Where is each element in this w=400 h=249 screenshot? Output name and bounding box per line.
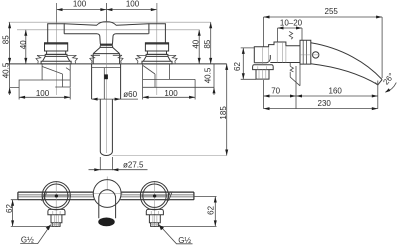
svg-text:G½: G½: [178, 236, 191, 245]
svg-text:62: 62: [206, 205, 215, 214]
svg-text:85: 85: [2, 35, 11, 44]
svg-text:230: 230: [318, 99, 332, 108]
svg-text:ø27.5: ø27.5: [123, 160, 144, 169]
svg-text:ø60: ø60: [123, 90, 137, 99]
svg-text:70: 70: [271, 86, 280, 95]
svg-text:10–20: 10–20: [280, 19, 303, 28]
svg-text:160: 160: [329, 86, 343, 95]
svg-text:62: 62: [233, 62, 242, 71]
svg-text:40: 40: [191, 39, 200, 48]
svg-text:G½: G½: [21, 235, 34, 244]
svg-text:185: 185: [219, 106, 228, 120]
svg-text:255: 255: [325, 7, 339, 16]
svg-text:100: 100: [164, 89, 178, 98]
svg-text:40.5: 40.5: [204, 67, 213, 83]
svg-text:62: 62: [5, 204, 14, 213]
svg-text:100: 100: [73, 0, 87, 8]
svg-text:100: 100: [126, 0, 140, 8]
svg-text:40: 40: [19, 40, 28, 49]
svg-text:40.5: 40.5: [2, 62, 11, 78]
svg-text:85: 85: [203, 39, 212, 48]
svg-text:100: 100: [36, 89, 50, 98]
